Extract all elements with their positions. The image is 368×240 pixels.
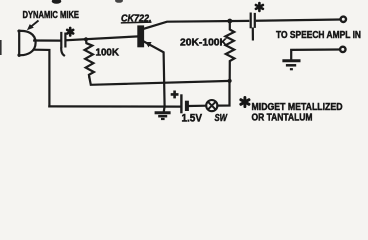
ground 2 <box>282 59 300 62</box>
ground 1 stem <box>163 106 166 111</box>
wire emitter lead <box>144 42 165 107</box>
transistor Q1 CK722 base bar <box>137 25 144 47</box>
wire mike bottom lead down <box>34 50 49 107</box>
capacitor C1 lower dash <box>61 49 64 56</box>
resistor R1 100K <box>85 39 94 77</box>
node junction dot base/R1 <box>84 37 88 41</box>
svg-text:OR TANTALUM: OR TANTALUM <box>252 113 313 124</box>
wire top rail C2 to terminal <box>257 20 340 21</box>
node junction dot B <box>227 19 232 24</box>
wire C1 to base <box>67 36 137 40</box>
battery B1 negative plate <box>185 101 189 111</box>
capacitor C1 <box>61 33 65 47</box>
switch SW cross <box>208 102 216 110</box>
wire collector lead to top rail <box>144 21 248 29</box>
label CK722 underline <box>121 21 152 24</box>
svg-text:TO SPEECH AMPL IN: TO SPEECH AMPL IN <box>276 30 361 41</box>
switch SW circle <box>206 100 217 111</box>
svg-text:MIDGET METALLIZED: MIDGET METALLIZED <box>252 102 343 113</box>
wire terminal 2 to ground 2 <box>291 50 339 60</box>
node junction dot C <box>228 79 232 83</box>
battery plus sign <box>171 91 179 99</box>
svg-text:100K: 100K <box>96 48 120 59</box>
svg-text:SW: SW <box>215 113 229 124</box>
svg-text:DYNAMIC MIKE: DYNAMIC MIKE <box>23 9 80 21</box>
ground 1 <box>155 111 171 114</box>
note asterisk <box>241 97 249 106</box>
wire switch up to junction C <box>217 81 229 106</box>
svg-text:20K-100K: 20K-100K <box>180 37 228 48</box>
battery B1 positive plate <box>180 94 182 113</box>
asterisk on C2 <box>256 3 263 11</box>
asterisk on C1 <box>67 28 73 36</box>
terminal 2 output <box>340 47 345 52</box>
wire R1 bottom rail to junction C <box>89 78 229 85</box>
wire bottom rail to battery <box>49 105 180 107</box>
stray mark top edge 2 <box>115 0 123 3</box>
resistor R2 20K-100K <box>225 21 234 81</box>
stray mark top edge 1 <box>52 0 62 4</box>
wire mike top lead to C1 <box>34 39 60 41</box>
capacitor C2 <box>251 14 255 28</box>
emitter arrowhead (PNP) <box>145 42 151 47</box>
microphone MIC body <box>19 31 36 56</box>
stray mark left edge <box>0 40 2 55</box>
terminal 1 output <box>341 17 346 22</box>
svg-text:1.5V: 1.5V <box>182 112 203 124</box>
wire battery to switch <box>189 105 206 108</box>
label arrow to mike <box>32 21 39 27</box>
capacitor C2 lower dash <box>252 29 254 40</box>
